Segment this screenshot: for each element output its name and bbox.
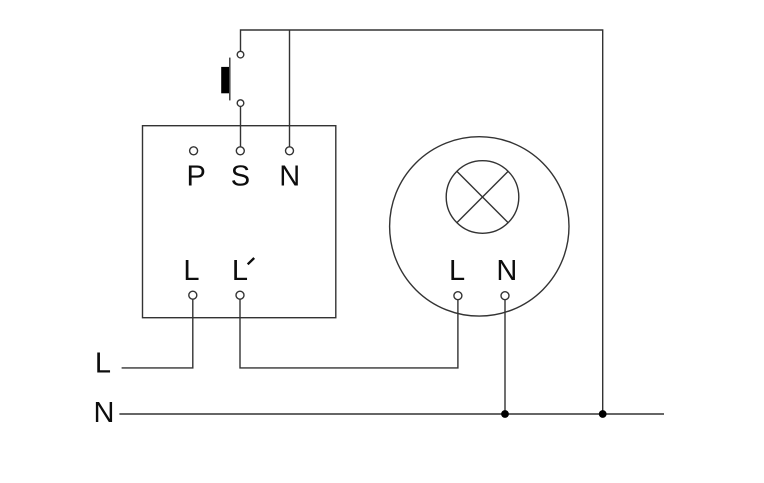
svg-text:N: N: [94, 397, 115, 429]
svg-text:N: N: [496, 255, 517, 287]
svg-text:P: P: [187, 160, 206, 192]
svg-text:S: S: [231, 160, 250, 192]
svg-text:L: L: [183, 255, 199, 287]
svg-text:N: N: [279, 160, 300, 192]
svg-text:L: L: [449, 255, 465, 287]
svg-text:L: L: [232, 255, 248, 287]
svg-text:L: L: [95, 347, 111, 379]
